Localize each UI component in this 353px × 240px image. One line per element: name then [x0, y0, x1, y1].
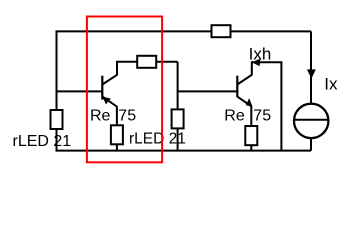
- svg-text:75: 75: [118, 107, 136, 124]
- svg-text:Re: Re: [90, 107, 111, 124]
- svg-text:Re: Re: [224, 107, 245, 124]
- svg-text:rLED 21: rLED 21: [13, 133, 72, 150]
- svg-text:rLED 21: rLED 21: [129, 131, 186, 148]
- svg-text:Ix: Ix: [324, 75, 338, 94]
- svg-text:75: 75: [253, 107, 271, 124]
- svg-text:Ixh: Ixh: [249, 45, 272, 64]
